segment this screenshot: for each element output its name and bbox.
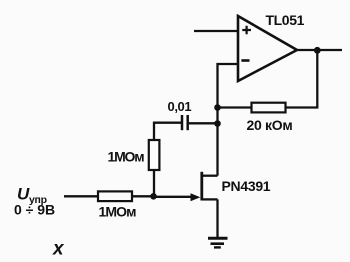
svg-text:0,01: 0,01 [168, 99, 192, 114]
svg-text:0 ÷ 9В: 0 ÷ 9В [14, 202, 55, 218]
svg-text:x: x [52, 239, 65, 260]
node feedback junction [214, 104, 221, 111]
svg-text:1МОм: 1МОм [99, 203, 137, 219]
svg-text:TL051: TL051 [266, 12, 305, 28]
wire capacitor right [188, 122, 218, 124]
ground [208, 238, 228, 247]
wire capacitor left [154, 123, 182, 140]
node output junction [314, 47, 321, 54]
svg-text:PN4391: PN4391 [222, 178, 271, 194]
wire inverting input [218, 64, 239, 108]
op-amp U1 [238, 16, 297, 81]
wire gate [154, 196, 197, 198]
resistor R1 20 кОм [252, 103, 286, 113]
wire R3 to gate node [132, 195, 154, 197]
wire output [297, 49, 343, 51]
node capacitor junction [214, 120, 221, 127]
node gate junction [150, 193, 157, 200]
svg-text:20 кОм: 20 кОм [247, 117, 293, 133]
wire non-inverting input [194, 30, 238, 32]
wire R2 bottom [153, 170, 155, 196]
resistor R2 1МОм vertical [149, 140, 160, 170]
svg-text:1МОм: 1МОм [108, 149, 145, 165]
capacitor C1 0,01 [182, 115, 188, 130]
wire summing node [216, 108, 218, 124]
wire feedback left [218, 106, 252, 108]
wire feedback right [286, 50, 318, 107]
resistor R3 1МОм input [98, 191, 132, 201]
transistor Q1 PN4391 [191, 172, 218, 201]
wire drain [216, 124, 218, 176]
wire input [64, 195, 98, 197]
wire source [216, 199, 218, 238]
